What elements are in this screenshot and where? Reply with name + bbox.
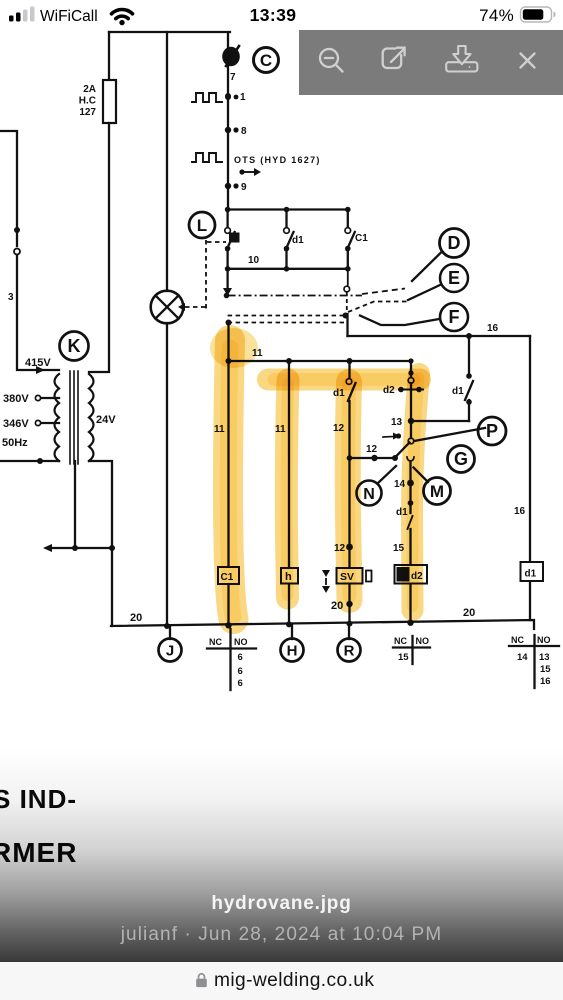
svg-text:C: C	[260, 51, 272, 70]
svg-text:6: 6	[238, 666, 243, 677]
svg-text:13: 13	[391, 417, 403, 428]
svg-text:L: L	[197, 216, 207, 235]
svg-text:15: 15	[398, 652, 409, 663]
svg-text:16: 16	[514, 506, 526, 517]
svg-text:N: N	[363, 486, 375, 503]
svg-text:15: 15	[540, 664, 551, 675]
svg-text:127: 127	[79, 107, 96, 118]
svg-text:C1: C1	[355, 233, 368, 244]
svg-text:380V: 380V	[3, 393, 29, 405]
svg-text:M: M	[430, 482, 444, 501]
svg-text:d1: d1	[452, 386, 464, 397]
svg-text:WiFiCall: WiFiCall	[40, 8, 98, 25]
svg-text:NC: NC	[209, 637, 222, 647]
svg-text:E: E	[448, 268, 460, 288]
svg-text:NO: NO	[234, 637, 248, 647]
svg-text:12: 12	[366, 444, 378, 455]
svg-text:d1: d1	[525, 569, 537, 580]
svg-text:24V: 24V	[96, 414, 116, 426]
svg-text:H.C: H.C	[79, 96, 96, 107]
svg-text:NO: NO	[537, 635, 551, 645]
svg-text:G: G	[454, 449, 468, 469]
svg-text:2A: 2A	[83, 84, 96, 95]
svg-text:14: 14	[517, 652, 528, 663]
svg-text:d1: d1	[292, 235, 304, 246]
svg-text:16: 16	[540, 676, 551, 687]
svg-text:H: H	[287, 643, 298, 660]
svg-text:NO: NO	[416, 636, 430, 646]
svg-text:8: 8	[241, 126, 247, 137]
svg-text:13:39: 13:39	[250, 5, 297, 25]
svg-text:3: 3	[8, 292, 14, 303]
svg-text:P: P	[486, 421, 498, 441]
svg-text:1: 1	[240, 92, 246, 103]
svg-text:20: 20	[463, 607, 475, 619]
svg-text:74%: 74%	[479, 6, 514, 25]
svg-text:7: 7	[230, 72, 236, 83]
svg-text:10: 10	[248, 255, 260, 266]
svg-text:R: R	[344, 643, 355, 660]
svg-text:16: 16	[487, 323, 499, 334]
svg-text:346V: 346V	[3, 418, 29, 430]
svg-text:NC: NC	[394, 636, 407, 646]
svg-text:6: 6	[238, 678, 243, 689]
svg-text:NC: NC	[511, 635, 524, 645]
svg-text:J: J	[166, 643, 174, 660]
svg-text:6: 6	[238, 652, 243, 663]
svg-text:D: D	[448, 233, 461, 253]
svg-text:K: K	[68, 336, 81, 356]
svg-text:9: 9	[241, 182, 247, 193]
svg-text:OTS (HYD 1627): OTS (HYD 1627)	[234, 155, 321, 165]
svg-text:20: 20	[130, 612, 142, 624]
svg-text:F: F	[449, 307, 460, 327]
svg-text:415V: 415V	[25, 357, 51, 369]
svg-text:50Hz: 50Hz	[2, 437, 28, 449]
svg-text:13: 13	[539, 652, 550, 663]
